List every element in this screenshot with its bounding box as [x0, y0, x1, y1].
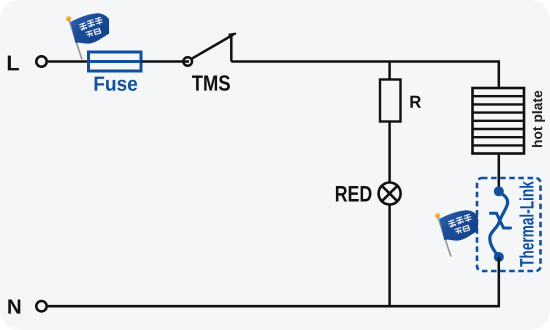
flag marker 1 ball — [66, 16, 71, 21]
thermal link dashed enclosure — [477, 178, 541, 271]
switch label "TMS" — [192, 75, 230, 91]
wire TMS to top-right corner — [231, 60, 499, 63]
thermal link top junction dot — [494, 186, 504, 196]
lamp label "RED" — [336, 186, 372, 202]
wire junction down to resistor — [388, 62, 391, 80]
node N label — [8, 300, 20, 314]
terminal L — [36, 56, 46, 66]
resistor label "R" — [410, 96, 421, 108]
flag marker 2 pole — [438, 218, 451, 257]
thermal link crossing stroke — [491, 213, 511, 228]
bottom neutral wire — [48, 305, 500, 308]
switch TMS contact tick — [229, 34, 237, 35]
thermal link label "Thermal-Link" — [519, 181, 533, 266]
wire resistor to lamp — [388, 122, 391, 184]
wire thermal link to bottom wire — [498, 257, 501, 307]
flag marker 2 ball — [435, 213, 440, 218]
thermal link bottom junction dot — [494, 252, 504, 262]
switch TMS blade — [192, 35, 234, 59]
wire fuse to TMS — [141, 60, 189, 63]
wire hot plate to thermal link — [498, 154, 501, 193]
fuse F1 body — [89, 52, 142, 71]
flag marker 2 banner — [439, 207, 483, 243]
switch TMS terminal circle — [183, 57, 192, 66]
hot plate heating element — [473, 88, 525, 154]
terminal N — [36, 301, 46, 311]
lamp RED symbol — [379, 183, 401, 205]
wire top-right corner down to hot plate — [498, 60, 501, 88]
hot plate label "hot plate" — [532, 91, 545, 147]
resistor R body — [380, 80, 401, 122]
switch TMS fixed contact drop wire — [230, 36, 233, 62]
flag marker 1 banner — [70, 10, 114, 46]
fuse label "Fuse" — [95, 77, 138, 91]
thermal link S-curve element — [490, 191, 508, 257]
wire lamp to bottom wire — [388, 205, 391, 307]
flag marker 1 pole — [69, 21, 82, 60]
wire L to fuse — [48, 60, 88, 63]
node L label — [8, 56, 19, 71]
